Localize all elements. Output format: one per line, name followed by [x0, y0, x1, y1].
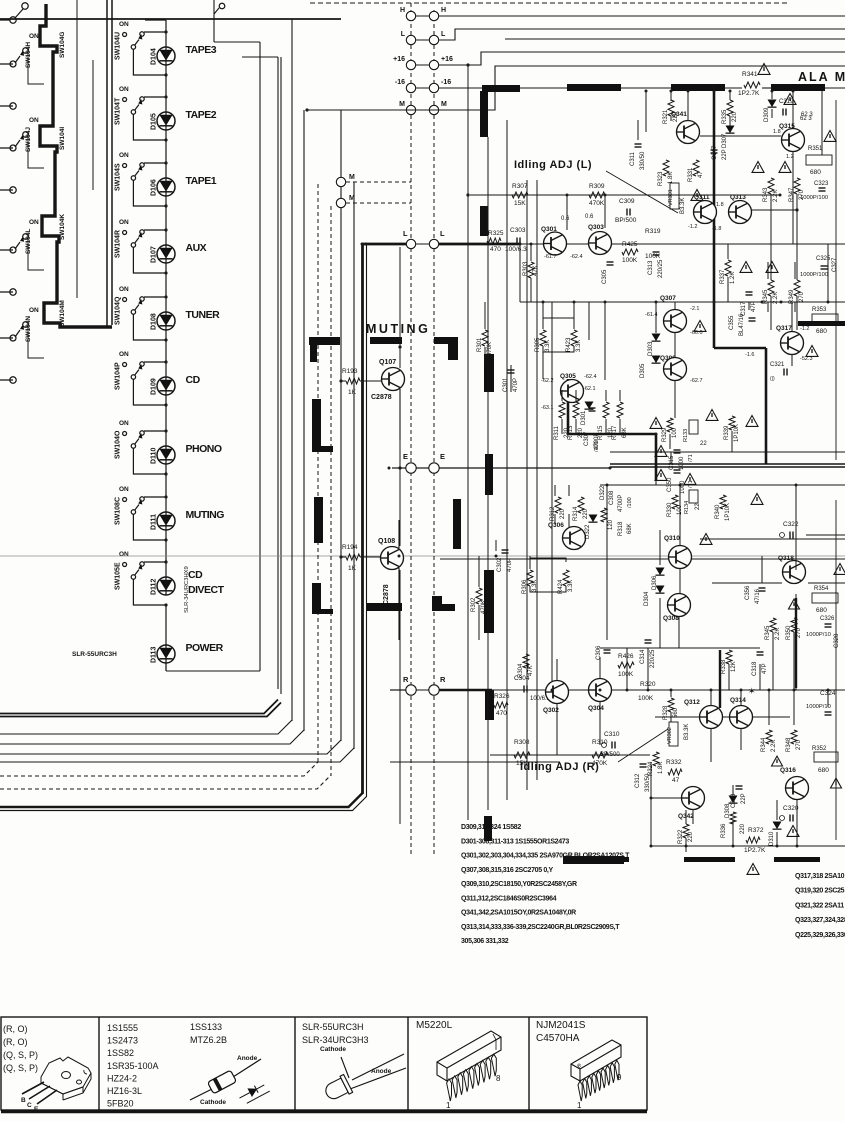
wire [645, 91, 647, 121]
wire [530, 244, 532, 261]
junction [732, 845, 735, 848]
svg-text:100K: 100K [618, 671, 634, 678]
resistor R329 [667, 418, 673, 432]
svg-text:L: L [403, 229, 408, 238]
svg-text:R425: R425 [622, 241, 638, 248]
wire rail y88 [725, 87, 742, 89]
junction [771, 90, 774, 93]
svg-text:R311: R311 [554, 425, 560, 440]
svg-text:560: 560 [673, 707, 679, 718]
svg-text:Q311,312,2SC1846S0R2SC3964: Q311,312,2SC1846S0R2SC3964 [461, 895, 557, 902]
wire [740, 690, 742, 705]
triangle warn x [747, 864, 759, 875]
svg-text:HZ24-2: HZ24-2 [107, 1073, 137, 1083]
resistor R305 [540, 330, 546, 346]
LED D110 [157, 446, 175, 464]
bus bar [309, 337, 340, 345]
LED D111 [157, 512, 175, 530]
svg-text:100K: 100K [622, 257, 638, 264]
wire [731, 431, 733, 452]
svg-text:R319: R319 [645, 228, 661, 235]
junction [679, 484, 682, 487]
junction [519, 243, 522, 246]
resistor R423 [571, 330, 577, 346]
diode D304 [656, 586, 665, 594]
svg-text:ON: ON [29, 117, 39, 124]
wire [679, 485, 681, 545]
bus bar [432, 604, 455, 611]
svg-text:1: 1 [446, 1101, 451, 1110]
wire [575, 419, 577, 434]
svg-text:B: B [21, 1097, 26, 1104]
svg-text:R331: R331 [688, 167, 694, 182]
wire [700, 135, 781, 137]
LED D112 [157, 577, 175, 595]
wire [740, 729, 742, 750]
resistor R194 [339, 555, 342, 558]
svg-text:R426: R426 [618, 653, 634, 660]
wire column above D110 [165, 395, 167, 446]
wire bus corner 754 [0, 740, 341, 754]
svg-text:R314: R314 [573, 506, 579, 521]
wire column above D111 [165, 464, 167, 512]
svg-text:1000P/100: 1000P/100 [800, 195, 828, 201]
svg-text:D111: D111 [151, 514, 158, 530]
wire [770, 230, 772, 244]
node E pair [406, 463, 416, 473]
svg-text:-1.8: -1.8 [712, 226, 721, 232]
svg-text:Cathode: Cathode [320, 1046, 346, 1053]
svg-text:1000P/10: 1000P/10 [806, 632, 831, 638]
svg-text:3.3K: 3.3K [545, 340, 551, 352]
svg-text:R336: R336 [721, 823, 727, 838]
svg-text:H: H [400, 7, 405, 14]
svg-text:C314: C314 [640, 649, 646, 664]
svg-text:C2878: C2878 [371, 394, 392, 401]
junction [713, 301, 716, 304]
svg-text:VR301: VR301 [668, 189, 674, 206]
svg-text:330/50: 330/50 [640, 151, 646, 170]
svg-text:R193: R193 [342, 368, 358, 375]
dashed vertical x434 [433, 10, 435, 855]
wire rail y195 [470, 194, 780, 196]
svg-text:D304: D304 [644, 591, 650, 606]
junction [604, 194, 607, 197]
resistor R316 [601, 508, 607, 522]
pointer line idling R [618, 729, 668, 762]
wire column above D109 [165, 330, 167, 377]
junction [710, 689, 713, 692]
wire q341 net [645, 91, 647, 132]
LED D104 [157, 47, 175, 65]
wire [604, 195, 606, 228]
wire vertical x366 [366, 244, 368, 797]
wire rail y648 [600, 647, 760, 649]
wire SW108C bypass [133, 514, 166, 540]
triangle warn p [700, 534, 712, 545]
wire [793, 632, 795, 690]
svg-text:R325: R325 [488, 230, 504, 237]
junction [670, 689, 673, 692]
svg-text:R339: R339 [724, 425, 730, 440]
capacitor C313 [653, 251, 660, 253]
wire H rail [439, 15, 845, 17]
svg-text:1K: 1K [348, 389, 357, 396]
triangle warn u [772, 756, 783, 766]
svg-text:22: 22 [700, 441, 707, 447]
svg-text:TUNER: TUNER [186, 309, 221, 321]
wire vertical x400 top [399, 247, 401, 368]
svg-text:C311: C311 [630, 151, 636, 166]
wire SW104Q bypass [133, 314, 166, 340]
svg-text:D105: D105 [151, 113, 158, 130]
wire vertical x341 [340, 110, 342, 741]
svg-text:9: 9 [617, 1073, 622, 1082]
node M x338 lower [336, 198, 345, 207]
wire SW104O bypass [133, 448, 166, 474]
bus bar top [567, 84, 621, 91]
wire [771, 91, 773, 99]
wire vertical x552 [551, 302, 553, 690]
svg-text:+16: +16 [393, 56, 405, 63]
svg-text:680: 680 [818, 767, 829, 774]
resistor R322 [683, 824, 689, 838]
resistor R340 [720, 495, 726, 509]
svg-text:C350: C350 [667, 477, 673, 492]
bus bar [370, 337, 402, 344]
svg-text:Q317,318 2SA10: Q317,318 2SA10 [795, 873, 845, 880]
wire [674, 381, 676, 418]
wire [732, 785, 734, 795]
switch SW104J [0, 147, 13, 149]
svg-text:5FB20: 5FB20 [107, 1099, 134, 1109]
wire vertical x304 [303, 110, 305, 731]
svg-text:R345: R345 [765, 625, 771, 640]
svg-text:E: E [403, 452, 408, 461]
svg-text:1SR35-100A: 1SR35-100A [107, 1061, 159, 1071]
bus bar [367, 603, 402, 611]
svg-text:Q323,327,324,328: Q323,327,324,328 [795, 917, 845, 924]
wire rail y88 [825, 87, 845, 89]
svg-text:C325: C325 [816, 256, 831, 262]
wire column above D107 [165, 196, 167, 245]
triangle warn d [752, 162, 764, 173]
component R315 [603, 402, 609, 418]
svg-text:/100: /100 [594, 441, 600, 452]
svg-text:R341: R341 [742, 71, 758, 78]
wire [568, 485, 570, 496]
capacitor C305 [607, 261, 614, 263]
pointer line idling L [606, 171, 678, 213]
triangle warn f [824, 131, 836, 142]
wire [792, 91, 794, 128]
svg-text:M: M [441, 101, 447, 108]
capacitor C315 [674, 449, 681, 451]
svg-text:22P: 22P [722, 149, 728, 160]
svg-text:CD: CD [186, 374, 201, 386]
svg-text:C355: C355 [729, 315, 735, 330]
resistor R312 [555, 497, 561, 513]
wire column above D106 [165, 130, 167, 178]
svg-text:220: 220 [583, 508, 589, 519]
svg-text:R318: R318 [618, 521, 624, 536]
wire [670, 690, 672, 697]
switch SW104N [0, 337, 13, 339]
svg-text:R329: R329 [662, 427, 668, 442]
svg-text:R345: R345 [763, 289, 769, 304]
wire [772, 632, 774, 690]
switch SW104L [0, 249, 13, 251]
svg-text:+16: +16 [441, 56, 453, 63]
resistor R314 [578, 497, 584, 513]
svg-text:D109: D109 [151, 378, 158, 395]
wire vertical x537 [536, 180, 538, 780]
svg-text:/71: /71 [688, 454, 694, 462]
svg-text:1S1555: 1S1555 [107, 1023, 138, 1033]
wire [768, 690, 770, 725]
svg-text:Q301,302,303,304,334,335 2SA9: Q301,302,303,304,334,335 2SA970GR,BLOR2S… [461, 853, 630, 860]
trace heavy q318 col [795, 598, 797, 688]
component R311 [559, 402, 565, 418]
diode symbol small [238, 1080, 270, 1105]
bus bar [484, 816, 492, 841]
svg-text:22P: 22P [741, 793, 747, 804]
wire [529, 556, 531, 569]
bus bar [453, 499, 461, 549]
wire Q108 emitter [398, 568, 400, 640]
junction [729, 90, 732, 93]
wire vertical x507 [506, 120, 508, 800]
svg-text:R308: R308 [514, 739, 530, 746]
bus bar [485, 454, 493, 495]
junction [740, 689, 743, 692]
svg-text:C4570HA: C4570HA [536, 1033, 580, 1044]
junction [388, 467, 391, 470]
junction [606, 484, 609, 487]
resistor R302 [476, 588, 482, 604]
junction [827, 689, 830, 692]
svg-text:D303: D303 [648, 341, 654, 356]
svg-text:Q225,329,326,330: Q225,329,326,330 [795, 932, 845, 939]
component R313 [573, 402, 579, 418]
svg-text:R350: R350 [786, 625, 792, 640]
junction [655, 301, 658, 304]
junction [655, 433, 658, 436]
capacitor C350 [674, 469, 681, 471]
resistor R349 [794, 280, 800, 296]
svg-text:2.2K: 2.2K [775, 628, 781, 640]
svg-text:R306: R306 [522, 579, 528, 594]
wire column above D105 [165, 65, 167, 112]
svg-text:D309,310,324 1S582: D309,310,324 1S582 [461, 824, 521, 831]
wire E rail [392, 467, 406, 469]
svg-text:1: 1 [577, 1101, 582, 1110]
triangle warn n [655, 446, 667, 457]
triangle warn l [706, 410, 718, 421]
wire column above D104 [165, 20, 167, 47]
wire [568, 514, 570, 528]
resistor R337 [725, 260, 731, 276]
svg-text:62 3: 62 3 [800, 116, 812, 122]
wire [727, 277, 729, 302]
svg-text:C327: C327 [832, 257, 838, 272]
switch stub top center [219, 3, 225, 9]
svg-text:220/25: 220/25 [658, 259, 664, 278]
svg-text:E: E [440, 452, 445, 461]
svg-text:L: L [440, 229, 445, 238]
svg-text:SLR-55URC3H: SLR-55URC3H [302, 1022, 364, 1032]
node M x338 upper [336, 177, 345, 186]
wire R305 box [543, 318, 574, 322]
svg-text:220: 220 [740, 823, 746, 834]
wire vertical x527 [526, 180, 528, 790]
svg-text:Q316: Q316 [780, 767, 796, 774]
dashed bus corner 789 [0, 775, 331, 789]
bus bar [312, 446, 333, 452]
junction [796, 845, 799, 848]
svg-text:3.3K: 3.3K [568, 580, 574, 592]
svg-text:D110: D110 [151, 448, 158, 464]
wire q341 r321 [670, 116, 672, 121]
wire SW104U bypass [133, 49, 166, 75]
svg-text:68K: 68K [622, 427, 628, 438]
svg-text:C326: C326 [820, 616, 835, 622]
wire rail y755 [490, 754, 650, 756]
bus bar [432, 596, 442, 611]
svg-text:R301: R301 [477, 337, 483, 352]
triangle warn k [650, 418, 662, 429]
wire ladder bottom [165, 663, 167, 671]
svg-text:SW104T: SW104T [115, 97, 122, 125]
transistor package TO-3P [41, 1057, 91, 1100]
node L pair [406, 35, 415, 44]
diode D308 [729, 796, 738, 804]
wire [655, 480, 657, 485]
svg-text:R309: R309 [589, 183, 605, 190]
svg-text:Q317: Q317 [776, 325, 792, 332]
dashed vertical x318 [317, 184, 319, 763]
triangle warn m [746, 416, 758, 427]
resistor R353 [812, 314, 838, 324]
triangle warn o [655, 470, 667, 481]
svg-text:C313: C313 [648, 260, 654, 275]
junction [713, 90, 716, 93]
svg-text:R347: R347 [789, 187, 795, 202]
resistor R193 [339, 379, 342, 382]
resistor R133 [689, 420, 698, 434]
svg-text:POWER: POWER [186, 642, 224, 654]
transistor Q302 [546, 681, 569, 704]
svg-text:R352: R352 [812, 746, 827, 752]
svg-text:D309: D309 [764, 107, 770, 122]
svg-text:3.3K: 3.3K [532, 580, 538, 592]
triangle warn q [751, 494, 763, 505]
wire top left horizontal [0, 18, 341, 20]
svg-text:R353: R353 [812, 307, 827, 313]
wire SW104T bypass [133, 114, 166, 140]
wire +16 rail [439, 52, 845, 65]
SIP9 package drawing [437, 1031, 501, 1081]
svg-text:ON: ON [29, 219, 39, 226]
resistor R328 [668, 698, 674, 712]
svg-text:680: 680 [816, 607, 827, 614]
wire [710, 690, 712, 705]
wire rail y717 [655, 716, 790, 718]
wire rail y242 [520, 243, 845, 245]
wire vertical x470 [467, 65, 469, 820]
svg-text:Q305: Q305 [560, 373, 576, 380]
capacitor C311 [635, 143, 642, 145]
svg-text:L: L [441, 31, 446, 38]
svg-text:R372: R372 [748, 827, 764, 834]
svg-text:Q307,308,315,316 2SC2705 0,Y: Q307,308,315,316 2SC2705 0,Y [461, 867, 553, 874]
svg-text:SLR-34URC3HX9: SLR-34URC3HX9 [184, 566, 190, 613]
svg-text:22: 22 [695, 503, 701, 510]
svg-text:R351: R351 [808, 146, 823, 152]
wire [484, 347, 486, 365]
wire [659, 530, 661, 565]
resistor R323 [663, 160, 669, 176]
wire [674, 333, 676, 357]
svg-text:Idling ADJ (R): Idling ADJ (R) [520, 761, 599, 773]
wire vertical x214 [213, 0, 215, 42]
svg-text:Q313,314,333,336-339,2SC2240GR: Q313,314,333,336-339,2SC2240GR,BL0R2SC29… [461, 924, 620, 931]
svg-text:1SS82: 1SS82 [107, 1048, 134, 1058]
svg-text:D322: D322 [585, 524, 591, 539]
svg-text:3.3K: 3.3K [576, 340, 582, 352]
wire [685, 846, 687, 852]
wire SW104R bypass [133, 247, 166, 273]
wire rail y88 [762, 87, 771, 89]
svg-text:1000P/10: 1000P/10 [806, 704, 831, 710]
resistor R347 [794, 178, 800, 194]
svg-text:Q304: Q304 [588, 705, 604, 712]
LED D108 [157, 312, 175, 330]
resistor R301 [482, 330, 488, 346]
svg-text:100K: 100K [638, 695, 654, 702]
resistor R345b [770, 618, 776, 632]
wire [604, 302, 606, 380]
svg-text:Cathode: Cathode [200, 1099, 226, 1106]
svg-text:C310: C310 [604, 731, 620, 738]
svg-text:D301: D301 [581, 410, 587, 425]
dashed M stub upper [346, 181, 411, 183]
trace heavy Q311 [713, 91, 716, 348]
LED D105 [157, 112, 175, 130]
svg-text:ON: ON [29, 307, 39, 314]
component C307 [589, 407, 596, 409]
wire vertical x488 [487, 137, 489, 810]
bus bar top [771, 84, 825, 91]
svg-text:-62.4: -62.4 [584, 374, 597, 380]
wire [561, 390, 563, 401]
svg-text:2.2K: 2.2K [773, 190, 779, 202]
wire [729, 91, 731, 100]
svg-text:-1.2: -1.2 [800, 326, 809, 332]
diode D310 [773, 822, 782, 830]
svg-text:SW104S: SW104S [115, 163, 122, 191]
capacitor C317 [746, 291, 753, 293]
potentiometer VR302 [669, 722, 678, 746]
LED D109 [157, 377, 175, 395]
wire q313 emitter [752, 209, 797, 211]
svg-text:-2.1: -2.1 [690, 306, 699, 312]
bus bar [484, 570, 494, 633]
transistor Q342 [682, 787, 705, 810]
svg-text:C307: C307 [584, 431, 590, 446]
svg-text:1P2.7K: 1P2.7K [738, 90, 760, 97]
wire [795, 594, 797, 690]
